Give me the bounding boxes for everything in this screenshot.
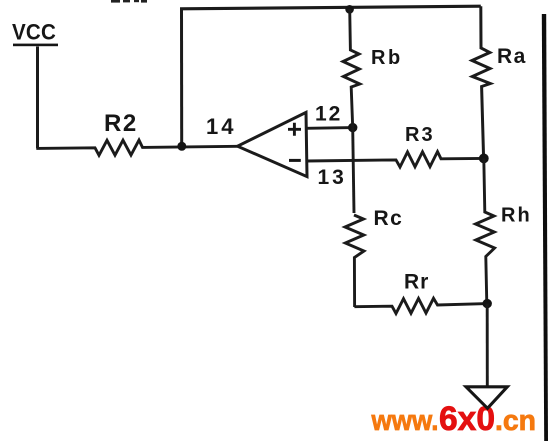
- scan border right edge: [542, 14, 548, 441]
- svg-text:Rc: Rc: [374, 207, 404, 230]
- resistor Rb (zigzag vertical): [343, 9, 360, 128]
- resistor R2 (zigzag) and wire to op-amp: [36, 140, 237, 155]
- svg-text:Rh: Rh: [501, 205, 532, 227]
- cropped text fragment top: [111, 0, 147, 3]
- svg-text:www.: www.: [371, 405, 439, 437]
- wire op-amp minus input through resistor R3 (zigzag) to Ra/Rh node: [307, 152, 485, 167]
- svg-text:Rb: Rb: [371, 47, 403, 69]
- node junction at R2/op-amp input: [177, 142, 186, 151]
- resistor Rc (zigzag vertical): [345, 215, 364, 307]
- svg-text:R2: R2: [104, 110, 138, 137]
- op-amp minus input mark: [289, 159, 301, 162]
- wire node down + resistor Rh (zigzag vertical): [476, 158, 495, 303]
- wire right rail top + resistor Ra (zigzag vertical): [472, 6, 490, 158]
- op-amp U1 triangle: [238, 112, 308, 176]
- wire Rc corner through resistor Rr (zigzag) to right node: [354, 298, 487, 313]
- wire top rail: [180, 6, 481, 9]
- wire op-amp plus input to Rb node: [306, 126, 353, 130]
- svg-text:Rr: Rr: [404, 271, 429, 294]
- node junction Rr / Rh / ground: [483, 299, 492, 308]
- svg-text:Ra: Ra: [497, 45, 527, 68]
- ground symbol: [466, 387, 507, 409]
- wire VCC vertical: [36, 47, 39, 149]
- svg-text:13: 13: [318, 166, 347, 189]
- svg-text:.cn: .cn: [495, 405, 536, 437]
- node junction top rail / Rb: [345, 5, 354, 14]
- svg-text:14: 14: [206, 114, 236, 139]
- svg-text:12: 12: [315, 103, 342, 126]
- svg-text:R3: R3: [405, 124, 435, 146]
- node junction R3 / Ra / Rh: [479, 154, 489, 164]
- wire node to ground: [486, 304, 489, 386]
- VCC underline: [13, 44, 58, 47]
- svg-text:VCC: VCC: [12, 20, 56, 45]
- wire Rb node down through minus-wire to Rc: [353, 128, 354, 213]
- wire left vertical (feedback branch): [180, 8, 183, 148]
- op-amp plus input mark: [288, 123, 301, 136]
- node junction plus input / Rb-Rc branch: [348, 123, 357, 132]
